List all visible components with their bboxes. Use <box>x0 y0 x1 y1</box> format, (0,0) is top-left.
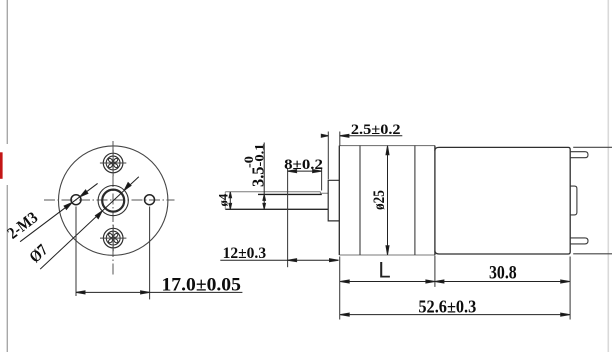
terminal bottom <box>570 238 588 244</box>
leader 2-M3 line <box>20 183 98 241</box>
motor body <box>435 147 570 254</box>
gearbox section line 1 <box>359 146 361 255</box>
extension line flat end <box>321 168 323 191</box>
right extension bottom <box>573 253 612 255</box>
horizontal centerline <box>44 199 175 201</box>
dimension 2.5±0.2 <box>327 132 329 180</box>
dimension 52.6±0.3 <box>340 313 570 316</box>
svg-text:-0.1: -0.1 <box>251 144 266 167</box>
end cap bump <box>570 186 577 215</box>
svg-text:12±0.3: 12±0.3 <box>223 245 267 262</box>
boss collar <box>328 180 339 221</box>
svg-text:2.5±0.2: 2.5±0.2 <box>351 122 401 138</box>
dimension 8±0.2 <box>288 170 322 173</box>
red stamp fragment <box>0 152 3 179</box>
shaft circle ø4 <box>102 190 124 212</box>
screw bottom <box>100 225 126 251</box>
svg-text:30.8: 30.8 <box>489 263 517 284</box>
page frame right border <box>607 0 609 352</box>
shaft boss circle ø7 <box>98 186 128 216</box>
dimension ø4 <box>229 192 232 209</box>
vertical centerline <box>112 141 114 277</box>
extension line right hole <box>149 207 151 300</box>
dimension 12±0.3 <box>339 257 341 320</box>
dimension L and 30.8 <box>434 256 436 287</box>
mounting hole right <box>145 195 155 205</box>
svg-text:8±0.2: 8±0.2 <box>284 157 323 173</box>
screw top <box>100 150 126 176</box>
page frame left border <box>6 0 8 352</box>
right extension top <box>573 146 612 148</box>
extension line left hole <box>75 207 77 297</box>
svg-text:L: L <box>378 258 390 283</box>
svg-text:3.5: 3.5 <box>248 167 267 188</box>
dimension 17.0±0.05 <box>76 291 242 294</box>
label 3.5 -0/-0.1 <box>241 144 267 188</box>
shaft outline <box>225 192 328 210</box>
gearbox body <box>339 145 435 147</box>
svg-text:52.6±0.3: 52.6±0.3 <box>418 297 476 317</box>
terminal top <box>570 152 588 158</box>
dimension ø25 <box>386 146 389 255</box>
gearbox face outer circle <box>58 146 167 255</box>
svg-text:17.0±0.05: 17.0±0.05 <box>162 275 241 296</box>
leader ø7 line <box>40 177 139 269</box>
svg-text:ø4: ø4 <box>216 193 231 206</box>
mounting hole left <box>71 195 81 205</box>
svg-text:ø25: ø25 <box>371 190 388 210</box>
extension line (shaft feature) shared 8 / 12 <box>287 168 289 267</box>
gearbox section line 2 <box>414 146 416 255</box>
dimension 3.5 -0/-0.1 <box>263 143 266 210</box>
shaft flat edge <box>258 193 322 195</box>
